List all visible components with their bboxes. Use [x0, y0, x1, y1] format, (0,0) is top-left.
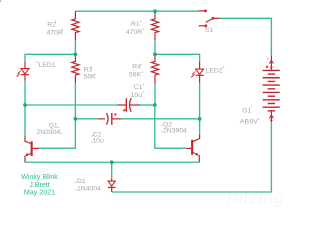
svg-text:LED2: LED2: [206, 67, 223, 74]
svg-text:470R: 470R: [126, 29, 142, 36]
resistor R3: [72, 54, 79, 83]
wire R1 bottom: [154, 40, 156, 54]
wire C1 row right: [140, 104, 155, 106]
wire C1 row left: [25, 104, 118, 106]
svg-text:10u: 10u: [131, 92, 143, 99]
transistor Q1: [25, 136, 39, 163]
svg-text:fritzing: fritzing: [227, 188, 284, 208]
junction C2 LED2 Q2 collector: [198, 117, 202, 121]
wire emitter rail: [25, 161, 199, 163]
resistor R1: [151, 11, 158, 40]
wire R4 bottom: [154, 83, 156, 105]
wire R3 bottom to Q1 base branch: [39, 83, 75, 148]
svg-text:May 2021: May 2021: [24, 188, 55, 196]
LED LED2: [191, 61, 204, 83]
wire bottom return and battery minus column: [112, 122, 272, 192]
wire S1 common to battery plus column: [221, 18, 272, 56]
switch S1: [199, 10, 221, 28]
svg-text:G1: G1: [242, 108, 251, 115]
svg-text:LED1: LED1: [39, 62, 56, 69]
capacitor C2: [98, 113, 121, 125]
wire R2 bottom: [74, 41, 76, 55]
wire top rail: [75, 10, 198, 12]
svg-text:1N4004: 1N4004: [77, 185, 101, 192]
svg-text:D1: D1: [77, 178, 86, 185]
junction emitter rail D1: [110, 160, 114, 164]
wire Q2 base branch: [155, 105, 187, 148]
resistor R2: [72, 11, 79, 40]
svg-text:2N3904: 2N3904: [163, 127, 187, 134]
battery pin mark: [267, 58, 268, 59]
svg-text:56K: 56K: [84, 73, 97, 80]
svg-text:R2: R2: [47, 21, 56, 28]
wire D1 top: [111, 162, 113, 178]
wire C2 row left: [75, 118, 98, 120]
transistor Q2: [186, 135, 199, 163]
svg-text:AB9V: AB9V: [240, 118, 258, 125]
wire LED1 top to R2 junction: [25, 54, 75, 62]
svg-text:R4: R4: [132, 63, 141, 70]
diode D1: [108, 178, 116, 192]
svg-text:R1: R1: [131, 21, 140, 28]
corner pixel: [0, 1, 1, 2]
battery G1: [263, 56, 280, 123]
LED LED1: [17, 62, 30, 81]
title text: [21, 173, 58, 196]
svg-text:R3: R3: [84, 66, 93, 73]
wire C2 row right: [121, 118, 200, 120]
junction R1 top: [153, 9, 157, 13]
junction R3 C2 Q1 base: [74, 117, 78, 121]
junction LED1 cathode C1: [23, 103, 27, 107]
svg-text:56K: 56K: [129, 71, 142, 78]
wire LED1 cathode column to Q1 collector: [24, 81, 26, 136]
svg-text:S1: S1: [205, 27, 214, 34]
wire LED2 cathode column to Q2 collector: [199, 83, 201, 134]
svg-text:2N3904: 2N3904: [36, 129, 60, 136]
junction R1 R4 LED2: [153, 53, 157, 57]
junction R4 C1 Q2 base: [153, 103, 157, 107]
resistor R4: [151, 54, 158, 83]
capacitor C1: [118, 98, 141, 112]
svg-text:470R: 470R: [47, 29, 63, 36]
junction R2 R3 LED1: [74, 53, 78, 57]
wire R1 junction to LED2 top: [155, 54, 200, 61]
svg-text:C1: C1: [134, 84, 143, 91]
svg-text:10u: 10u: [92, 137, 104, 144]
